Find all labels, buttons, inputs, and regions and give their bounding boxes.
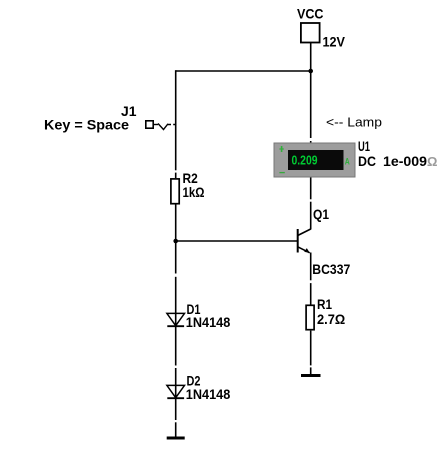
wire VCC to junction: [310, 43, 312, 71]
node junction base: [173, 239, 178, 244]
wire left rail upper: [175, 70, 177, 170]
terminal +: [279, 148, 283, 150]
svg-text:0.209: 0.209: [292, 154, 318, 168]
svg-text:1e-009: 1e-009: [383, 153, 427, 169]
wire junction to meter: [310, 71, 312, 138]
svg-text:<-- Lamp: <-- Lamp: [326, 115, 382, 130]
wire to R1 top: [310, 283, 312, 305]
node junction top: [308, 69, 313, 74]
transistor Q1: [297, 229, 299, 253]
diode D2: [167, 385, 185, 397]
wire R2 pin top: [175, 173, 177, 178]
wire base: [176, 240, 298, 242]
svg-text:Ω: Ω: [427, 154, 437, 169]
wire D1 pin to D1: [175, 277, 177, 326]
wire top horizontal: [176, 70, 311, 72]
svg-text:A: A: [345, 156, 350, 166]
wire D2 to ground: [175, 398, 177, 420]
svg-text:1kΩ: 1kΩ: [183, 184, 205, 200]
wire collector pin: [310, 202, 312, 230]
svg-text:1N4148: 1N4148: [186, 386, 231, 402]
ground left: [167, 437, 185, 440]
ground right: [301, 374, 321, 377]
svg-text:12V: 12V: [323, 34, 346, 50]
svg-text:BC337: BC337: [312, 261, 350, 277]
wire meter pin top: [310, 141, 312, 144]
wire emitter pin: [310, 253, 312, 281]
svg-text:Key = Space: Key = Space: [44, 117, 129, 133]
svg-text:VCC: VCC: [297, 6, 324, 22]
wire ground pin right: [310, 367, 312, 375]
svg-text:2.7Ω: 2.7Ω: [317, 311, 345, 327]
svg-text:Q1: Q1: [313, 206, 329, 222]
terminal -: [279, 172, 284, 174]
wire D2 pin: [175, 368, 177, 398]
resistor R1: [306, 305, 314, 329]
svg-text:R1: R1: [317, 296, 332, 312]
svg-text:1N4148: 1N4148: [186, 314, 231, 330]
svg-text:U1: U1: [358, 138, 370, 154]
wire D1 to D2: [175, 326, 177, 366]
power VCC: [301, 23, 320, 43]
svg-text:DC: DC: [358, 153, 376, 169]
wire meter to gap: [310, 176, 312, 199]
diode D1: [167, 313, 185, 325]
wire R2 bottom to base junction: [175, 204, 177, 274]
switch J1: [146, 121, 153, 128]
wire ground pin left: [175, 422, 177, 438]
wire R1 to gap: [310, 331, 312, 366]
ammeter display 0.209: [288, 150, 344, 170]
resistor R2: [171, 179, 179, 204]
ammeter U1 body: [274, 143, 355, 177]
